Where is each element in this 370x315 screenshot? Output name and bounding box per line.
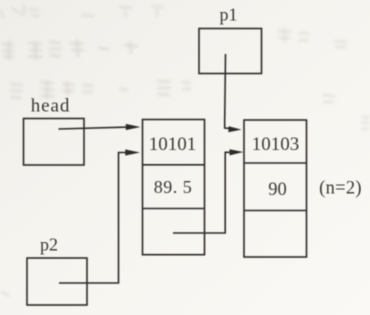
node1 divider 1 (143, 164, 205, 166)
node2 divider 1 (244, 162, 307, 164)
arrowhead head->node1 (126, 124, 141, 130)
svg-text:p2: p2 (40, 235, 58, 255)
box p1 (199, 29, 262, 74)
svg-text:89. 5: 89. 5 (154, 177, 193, 197)
svg-text:p1: p1 (220, 5, 238, 25)
svg-text:head: head (31, 96, 70, 117)
diagram strokes (24, 29, 307, 306)
wire p2 -> node1 (59, 153, 127, 284)
wire head -> node1 (59, 127, 129, 129)
wire node1.next -> node2 (173, 152, 230, 233)
box p2 (27, 258, 87, 305)
node1 divider 2 (143, 208, 205, 210)
node1 outline (143, 120, 205, 255)
box head (24, 119, 85, 166)
svg-text:90: 90 (268, 180, 287, 200)
svg-text:(n=2): (n=2) (319, 179, 362, 199)
node2 outline (244, 120, 307, 257)
arrowhead node1.next->node2 (230, 149, 244, 155)
arrowhead p1->node2 (228, 126, 241, 132)
node2 divider 2 (244, 210, 307, 212)
svg-text:10103: 10103 (252, 134, 300, 155)
arrowhead p2->node1 (125, 149, 140, 155)
wire p1 -> node2 (225, 54, 230, 128)
svg-text:10101: 10101 (149, 134, 197, 155)
